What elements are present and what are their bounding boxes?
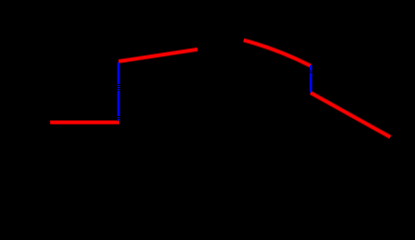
red segment D (final declining piece) [311,93,391,137]
red segment B (rising piece) [119,49,198,61]
red segment C (declining piece after gap) [244,40,311,66]
blue jump line 2 at x=310.8 [310,65,312,92]
glow halos [50,40,390,137]
red segment A (flat left piece) [50,121,119,124]
blue jump line 1 at x=118.5 [118,62,120,120]
